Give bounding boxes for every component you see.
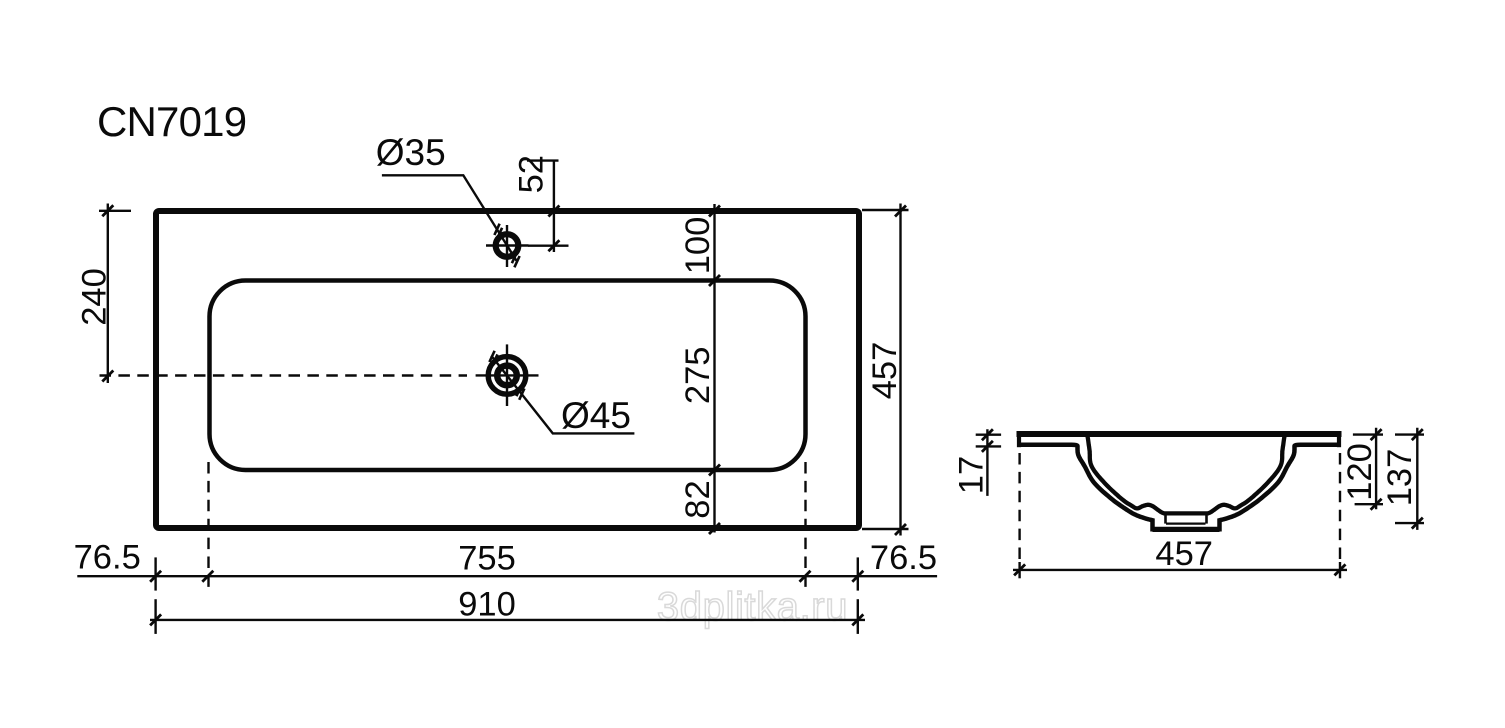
svg-text:76.5: 76.5 bbox=[74, 539, 141, 577]
dashed extension right (section 457) bbox=[1339, 453, 1341, 562]
drain hole outer circle bbox=[488, 357, 526, 395]
dimension line 755 with 76.5 both sides bbox=[77, 575, 937, 577]
svg-text:52: 52 bbox=[513, 155, 551, 193]
tick 457 top bbox=[895, 206, 906, 217]
tick 910 right bbox=[852, 614, 863, 625]
dimension line 910 bbox=[150, 619, 865, 621]
drain hole inner circle bbox=[497, 366, 517, 386]
arrow ticks on Ø45 leader near circle bbox=[489, 351, 524, 400]
tick 240 top bbox=[102, 205, 113, 216]
dashed centerline through drain bbox=[100, 374, 468, 376]
svg-text:Ø45: Ø45 bbox=[561, 395, 631, 436]
tick 17 bottom bbox=[982, 441, 993, 452]
svg-text:3dplitka.ru: 3dplitka.ru bbox=[657, 585, 848, 629]
basin outer rect (top view) bbox=[156, 211, 859, 528]
basin inner bowl rounded rect bbox=[210, 281, 806, 471]
pocket wall left bbox=[1164, 513, 1167, 523]
tick 910 left bbox=[150, 614, 161, 625]
section inner wall profile bbox=[1088, 436, 1285, 513]
svg-text:120: 120 bbox=[1341, 443, 1379, 501]
drain pocket floor line bbox=[1166, 522, 1206, 524]
svg-text:910: 910 bbox=[458, 586, 516, 624]
svg-text:457: 457 bbox=[866, 342, 904, 400]
arrow ticks on Ø35 leader near circle bbox=[494, 224, 519, 268]
faucet hole crosshair vertical bbox=[506, 225, 508, 267]
extension verticals below rect for 755 dim bbox=[156, 557, 858, 590]
tick 137 bottom bbox=[1412, 518, 1423, 529]
dimension 52 line bbox=[527, 161, 569, 253]
tick 52 top bbox=[548, 206, 559, 217]
dimension 457 (top view) extension lines bbox=[862, 204, 909, 536]
tick 240 bottom bbox=[102, 371, 113, 382]
tick 457 bottom bbox=[895, 524, 906, 535]
section view top plate line bbox=[1017, 431, 1342, 437]
dashed extension from inner rect right bbox=[804, 462, 806, 590]
tick 755 outer-left bbox=[150, 571, 161, 582]
section bottom heavy line bbox=[1153, 527, 1220, 532]
tick chain at inner bottom bbox=[709, 465, 720, 476]
svg-text:240: 240 bbox=[76, 268, 114, 326]
svg-text:457: 457 bbox=[1155, 535, 1213, 573]
dimension 120 (section) bbox=[1353, 428, 1383, 510]
svg-text:17: 17 bbox=[953, 456, 991, 494]
svg-text:137: 137 bbox=[1381, 449, 1419, 507]
dimension 137 (section) bbox=[1395, 428, 1424, 530]
dimension line 457 (section) bbox=[1013, 569, 1347, 571]
section outer wall profile bbox=[1019, 445, 1339, 530]
tick section 457 left bbox=[1014, 564, 1025, 575]
tick 120 top bbox=[1371, 429, 1382, 440]
tick chain at inner top bbox=[709, 275, 720, 286]
tick chain at top edge bbox=[709, 206, 720, 217]
tick 17 top bbox=[982, 429, 993, 440]
svg-text:755: 755 bbox=[458, 539, 516, 577]
drain crosshair horizontal bbox=[476, 374, 539, 376]
dimension 17 (section) bbox=[976, 429, 1001, 496]
tick 52 bottom bbox=[548, 240, 559, 251]
svg-text:76.5: 76.5 bbox=[870, 539, 937, 577]
tick 755 inner-left bbox=[202, 571, 213, 582]
drain crosshair vertical bbox=[506, 344, 508, 406]
section left end cap bbox=[1017, 431, 1021, 447]
faucet hole crosshair horizontal bbox=[486, 244, 529, 246]
dashed extension left (section 457) bbox=[1018, 453, 1020, 562]
tick 755 outer-right bbox=[852, 571, 863, 582]
extension verticals for 910 dim bbox=[156, 599, 858, 634]
svg-text:275: 275 bbox=[679, 347, 717, 405]
pocket wall right bbox=[1205, 513, 1208, 523]
tick section 457 right bbox=[1335, 564, 1346, 575]
svg-text:82: 82 bbox=[679, 480, 717, 518]
svg-text:100: 100 bbox=[679, 217, 717, 275]
leader line for Ø35 bbox=[382, 175, 517, 260]
tick 755 inner-right bbox=[800, 571, 811, 582]
dimension chain 100/275/82 vertical line bbox=[713, 204, 715, 533]
section right end cap bbox=[1337, 431, 1341, 447]
dashed extension from inner rect left bbox=[207, 462, 209, 590]
dimension 240 vertical line bbox=[99, 204, 131, 384]
tick 120 bottom bbox=[1371, 499, 1382, 510]
faucet hole circle bbox=[496, 234, 519, 257]
tick chain at outer bottom bbox=[709, 523, 720, 534]
svg-text:Ø35: Ø35 bbox=[376, 132, 446, 173]
leader line for Ø45 bbox=[491, 356, 634, 434]
svg-text:CN7019: CN7019 bbox=[97, 98, 246, 145]
tick 137 top bbox=[1412, 429, 1423, 440]
